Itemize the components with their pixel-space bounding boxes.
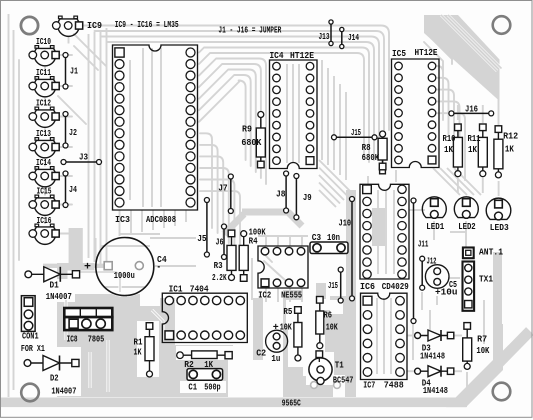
wire IC7 interior traces bbox=[377, 298, 391, 374]
svg-text:D1: D1 bbox=[50, 280, 60, 290]
resistor R4 100K bbox=[239, 227, 266, 281]
svg-text:1N4007: 1N4007 bbox=[46, 292, 72, 302]
svg-text:+: + bbox=[84, 262, 91, 274]
svg-text:J3: J3 bbox=[79, 153, 88, 163]
svg-text:IC3: IC3 bbox=[115, 215, 130, 225]
resistor R5 10K bbox=[280, 307, 302, 361]
wire copper pour top-right bbox=[424, 15, 502, 126]
mounting hole top-left bbox=[21, 17, 38, 34]
capacitor C4 1000u bbox=[84, 238, 167, 296]
svg-text:J9: J9 bbox=[303, 193, 312, 203]
temperature sensor IC10 LM35 bbox=[29, 37, 59, 66]
jumper J4 bbox=[63, 171, 77, 208]
svg-text:IC1: IC1 bbox=[169, 284, 184, 294]
resistor R6 10K bbox=[316, 297, 338, 349]
temperature sensor IC9 LM35 bbox=[53, 16, 103, 36]
wire bottom copper band bbox=[1, 324, 530, 407]
jumper J15 bbox=[328, 267, 343, 303]
jumper J1 bbox=[63, 53, 78, 90]
diode D1 1N4007 bbox=[25, 267, 80, 302]
svg-text:LED1: LED1 bbox=[426, 222, 444, 232]
svg-text:7805: 7805 bbox=[88, 334, 105, 344]
svg-text:680K: 680K bbox=[241, 138, 262, 148]
svg-text:C3: C3 bbox=[312, 233, 322, 243]
svg-text:-: - bbox=[157, 262, 162, 274]
svg-text:J16: J16 bbox=[465, 105, 478, 115]
IC IC1 7404 bbox=[162, 284, 247, 342]
svg-text:IC7: IC7 bbox=[363, 381, 375, 391]
svg-text:1K: 1K bbox=[505, 145, 514, 155]
jumper J6 bbox=[216, 224, 227, 260]
svg-text:1K: 1K bbox=[468, 145, 477, 155]
svg-text:IC11: IC11 bbox=[36, 68, 51, 78]
resistor R9 680K bbox=[241, 112, 265, 168]
wire IC3 interior traces bbox=[130, 48, 161, 207]
svg-text:R9: R9 bbox=[242, 125, 252, 135]
svg-text:10K: 10K bbox=[326, 322, 338, 332]
wire IC6 top pads area bbox=[368, 160, 396, 186]
resistor R1 1K bbox=[134, 323, 155, 377]
svg-text:680K: 680K bbox=[362, 153, 380, 163]
svg-text:ANT.1: ANT.1 bbox=[479, 248, 504, 258]
jumper J5 bbox=[197, 198, 209, 258]
svg-text:J4: J4 bbox=[69, 185, 77, 195]
wire LED region traces bbox=[433, 168, 499, 248]
jumper J9 bbox=[294, 174, 312, 220]
svg-text:R1: R1 bbox=[134, 338, 143, 348]
svg-text:CD4029: CD4029 bbox=[382, 282, 409, 292]
mounting hole top-right bbox=[493, 16, 511, 34]
wire bottom-right traces bbox=[413, 252, 498, 397]
wire copper pour center bbox=[253, 190, 385, 397]
jumper J12 bbox=[420, 256, 437, 290]
jumper J10 bbox=[339, 197, 355, 301]
svg-text:HT12E: HT12E bbox=[290, 51, 315, 61]
wire misc vias bbox=[105, 262, 341, 389]
IC IC4 HT12E bbox=[270, 51, 318, 169]
jumper J3 bbox=[61, 153, 102, 165]
svg-text:1N4148: 1N4148 bbox=[423, 386, 448, 396]
temperature sensor IC11 LM35 bbox=[29, 68, 59, 97]
wire sensor column bundle bbox=[45, 26, 107, 268]
resistor R3 2.2K bbox=[212, 230, 236, 283]
temperature sensor IC16 LM35 bbox=[29, 216, 59, 244]
wire IC5 right corners to resistors and LEDs bbox=[436, 66, 465, 180]
svg-text:+: + bbox=[273, 323, 279, 334]
svg-text:R11: R11 bbox=[468, 134, 481, 144]
temperature sensor IC14 LM35 bbox=[29, 158, 59, 187]
jumper J13 bbox=[319, 20, 334, 46]
IC IC3 ADC0808 bbox=[113, 45, 198, 225]
antenna pad ANT.1 bbox=[463, 248, 504, 259]
svg-text:J1: J1 bbox=[70, 67, 78, 77]
svg-text:2.2K: 2.2K bbox=[212, 273, 227, 283]
svg-text:D2: D2 bbox=[50, 374, 59, 384]
svg-text:IC9: IC9 bbox=[87, 21, 102, 31]
svg-text:TX1: TX1 bbox=[479, 275, 494, 285]
svg-text:C1: C1 bbox=[188, 383, 197, 393]
temperature sensor IC15 LM35 bbox=[29, 187, 59, 216]
svg-text:J7: J7 bbox=[218, 184, 228, 194]
svg-text:NE555: NE555 bbox=[281, 290, 302, 300]
svg-text:7488: 7488 bbox=[384, 381, 404, 391]
wire top bus B with fan to IC3 bbox=[199, 48, 369, 185]
svg-text:CON1: CON1 bbox=[22, 332, 39, 342]
IC IC7 7488 bbox=[361, 293, 408, 391]
svg-text:500p: 500p bbox=[204, 383, 221, 393]
svg-text:IC8: IC8 bbox=[67, 334, 78, 344]
svg-text:IC5: IC5 bbox=[392, 49, 406, 59]
svg-text:R12: R12 bbox=[503, 132, 518, 142]
svg-text:IC15: IC15 bbox=[37, 187, 52, 197]
svg-text:1000u: 1000u bbox=[114, 271, 135, 281]
voltage regulator IC8 7805 bbox=[64, 308, 112, 344]
svg-text:1N4148: 1N4148 bbox=[420, 352, 445, 362]
wire left edge traces bbox=[9, 14, 20, 397]
jumper J8 bbox=[276, 171, 289, 213]
connector CON1 bbox=[21, 296, 45, 354]
svg-text:9565C: 9565C bbox=[282, 398, 301, 408]
mounting hole bottom-right bbox=[493, 383, 511, 401]
svg-text:1u: 1u bbox=[271, 354, 280, 364]
svg-text:J15: J15 bbox=[328, 281, 338, 291]
wire IC4 interior traces bbox=[287, 64, 299, 163]
wire IC2 region traces bbox=[252, 236, 308, 302]
svg-text:R3: R3 bbox=[214, 261, 223, 271]
LED LED2 bbox=[454, 197, 478, 232]
svg-text:J5: J5 bbox=[197, 234, 207, 244]
IC IC6 CD4029 bbox=[360, 184, 409, 291]
svg-text:IC13: IC13 bbox=[36, 129, 51, 139]
svg-text:IC4: IC4 bbox=[270, 51, 285, 61]
svg-text:J6: J6 bbox=[216, 238, 224, 248]
jumper J2 bbox=[63, 112, 77, 149]
resistor R10 1K bbox=[443, 124, 463, 177]
IC IC2 NE555 bbox=[258, 246, 308, 300]
resistor R8 680K bbox=[362, 131, 388, 170]
svg-text:BC547: BC547 bbox=[333, 376, 354, 386]
IC IC5 HT12E bbox=[392, 48, 440, 168]
jumper J15 bbox=[332, 128, 378, 140]
svg-text:LED2: LED2 bbox=[458, 222, 476, 232]
wire IC3 bottom fanout bbox=[120, 210, 187, 236]
capacitor C1 500p bbox=[187, 369, 223, 393]
svg-text:10n: 10n bbox=[327, 233, 340, 243]
svg-text:+10u: +10u bbox=[435, 288, 458, 298]
svg-text:ADC0808: ADC0808 bbox=[146, 215, 176, 225]
svg-text:R7: R7 bbox=[477, 334, 487, 344]
svg-text:100K: 100K bbox=[249, 227, 266, 237]
svg-text:C2: C2 bbox=[256, 349, 266, 359]
svg-text:1N4007: 1N4007 bbox=[51, 387, 76, 397]
diode D2 1N4007 bbox=[24, 356, 79, 397]
svg-text:J14: J14 bbox=[348, 33, 359, 43]
jumper J7 bbox=[218, 174, 233, 214]
svg-text:IC10: IC10 bbox=[36, 37, 51, 47]
diode D4 1N4148 bbox=[415, 366, 454, 397]
svg-text:1K: 1K bbox=[444, 145, 453, 155]
svg-text:7404: 7404 bbox=[190, 284, 210, 294]
resistor R2 1K bbox=[177, 351, 233, 370]
wire IC4 right bundle down to IC6 bbox=[224, 60, 352, 234]
svg-text:J11: J11 bbox=[418, 239, 429, 249]
svg-text:T1: T1 bbox=[335, 361, 344, 371]
resistor R11 1K bbox=[468, 124, 488, 177]
svg-text:J2: J2 bbox=[69, 128, 77, 138]
capacitor C5 +10u bbox=[425, 265, 457, 298]
wire IC6 interior and right traces bbox=[378, 190, 425, 274]
svg-text:IC9 - IC16 = LM35: IC9 - IC16 = LM35 bbox=[115, 20, 179, 30]
svg-text:10K: 10K bbox=[476, 346, 489, 356]
svg-text:FOR X1: FOR X1 bbox=[21, 344, 45, 354]
svg-text:LED3: LED3 bbox=[490, 223, 509, 233]
diode D3 1N4148 bbox=[415, 330, 454, 362]
svg-text:IC2: IC2 bbox=[258, 290, 271, 300]
svg-text:R6: R6 bbox=[324, 310, 333, 320]
temperature sensor IC12 LM35 bbox=[29, 99, 59, 128]
svg-text:R5: R5 bbox=[283, 307, 292, 317]
capacitor C2 1u bbox=[256, 323, 287, 364]
svg-text:J8: J8 bbox=[276, 189, 286, 199]
svg-text:J15: J15 bbox=[351, 128, 361, 138]
mounting hole bottom-left bbox=[21, 384, 39, 402]
svg-text:IC12: IC12 bbox=[36, 99, 51, 109]
resistor R12 1K bbox=[494, 126, 518, 178]
wire D3 D4 connections bbox=[407, 292, 437, 371]
svg-text:HT12E: HT12E bbox=[415, 48, 439, 58]
jumper J14 bbox=[340, 27, 360, 48]
svg-text:R8: R8 bbox=[362, 143, 371, 153]
wire IC3 lower-right corners to IC2 area bbox=[200, 133, 240, 253]
svg-text:R10: R10 bbox=[443, 134, 456, 144]
svg-text:J13: J13 bbox=[319, 32, 330, 42]
svg-text:J10: J10 bbox=[339, 219, 352, 229]
svg-text:R4: R4 bbox=[249, 237, 258, 247]
svg-text:IC14: IC14 bbox=[36, 158, 51, 168]
jumper J16 bbox=[449, 105, 494, 116]
wire copper pour bottom-left around power section bbox=[33, 228, 238, 397]
capacitor C3 10n bbox=[310, 233, 348, 253]
jumper J11 bbox=[411, 198, 429, 324]
svg-text:IC6: IC6 bbox=[360, 282, 375, 292]
LED LED3 bbox=[486, 198, 511, 233]
wire top bus A bbox=[89, 26, 390, 161]
svg-text:IC16: IC16 bbox=[37, 216, 52, 226]
temperature sensor IC13 LM35 bbox=[29, 129, 59, 158]
wire C4 power traces bbox=[43, 238, 196, 397]
resistor R7 10K bbox=[463, 323, 490, 370]
LED LED1 bbox=[422, 197, 446, 232]
transistor T1 BC547 bbox=[309, 351, 354, 386]
svg-text:1K: 1K bbox=[134, 347, 142, 357]
transmitter module TX1 bbox=[463, 262, 494, 311]
svg-text:J1 - J16 = JUMPER: J1 - J16 = JUMPER bbox=[218, 26, 281, 36]
